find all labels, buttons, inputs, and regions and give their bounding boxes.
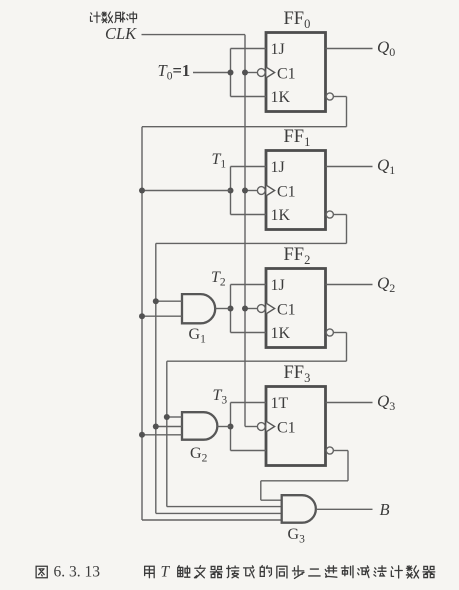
complement output bubble of FF3 [326,447,333,454]
wire Q1' to G3 input [156,512,282,514]
wire K input of FF2 [231,332,267,334]
dynamic input wedge at C1 of FF2 [266,303,274,313]
svg-text:CLK: CLK [105,24,137,43]
svg-text:6. 3. 13: 6. 3. 13 [54,564,101,581]
wire J input of FF1 [231,166,267,168]
caption 图 6.3.13 [36,566,47,578]
wire Q0' feedback: bubble to elbow [333,96,346,98]
svg-text:1J: 1J [271,277,285,294]
svg-text:1T: 1T [271,395,289,412]
wire Q3' feedback vertical right [347,451,349,481]
svg-text:1K: 1K [271,207,291,224]
inverter bubble at C1 of FF0 [257,69,265,77]
wire G1 input 1 from Q1' column [156,300,182,302]
junction dot CLK tap at FF2 [242,306,248,312]
dynamic input wedge at C1 of FF1 [266,185,274,195]
wire G2 output to FF3 bracket [217,426,230,428]
wire Q3' feedback vertical drop [260,481,262,500]
wire Q3' to G3 top input [261,499,282,501]
wire Q1' feedback column [155,243,157,513]
wire G1 output to FF2 bracket [215,308,230,310]
wire T1 line from Q0' column to FF1 bracket [142,190,231,192]
wire K input of FF0 [231,96,267,98]
complement output bubble of FF2 [326,329,333,336]
inverter bubble at C1 of FF3 [257,423,265,431]
wire J-K bracket vertical of FF0 [230,49,232,97]
wire J input of FF2 [231,284,267,286]
svg-text:T0=1: T0=1 [158,61,191,83]
wire Q2' feedback: bubble to elbow [333,332,346,334]
svg-text:T: T [161,564,171,581]
junction dot Q1' column at G1 input [153,298,159,304]
flip-flop FF1 box [266,151,326,230]
svg-text:1K: 1K [271,89,291,106]
and-gate G3 [282,495,316,523]
junction dot Q2' column at G2 input [164,414,170,420]
wire Q2' to G3 input [167,506,282,508]
flip-flop FF2 box [266,269,326,348]
wire CLK stub to C1 of FF3 [245,426,257,428]
wire Q0' feedback vertical right [346,97,348,127]
wire Q1 output [326,166,373,168]
junction dot T-line at FF3 bracket [228,424,234,430]
wire J-K bracket vertical of FF3 [230,403,232,451]
wire J input of FF3 [231,402,267,404]
wire CLK stub to C1 of FF1 [245,190,257,192]
junction dot T-line at FF1 bracket [228,188,234,194]
wire T0 input to FF0 JK bracket [193,72,231,74]
wire CLK stub to C1 of FF2 [245,308,257,310]
junction dot T-line at FF2 bracket [228,306,234,312]
wire G2 input 2 from Q1' column [156,426,182,428]
junction dot Q0' column at G2 input [139,432,145,438]
and-gate G2 [182,412,217,440]
wire Q1' feedback horizontal crossover [156,242,347,244]
svg-text:1J: 1J [271,159,285,176]
wire K input of FF3 [231,450,267,452]
junction dot Q0' column at T1 line [139,188,145,194]
wire J-K bracket vertical of FF2 [230,285,232,333]
svg-text:1K: 1K [271,325,291,342]
wire Q3' feedback: bubble to elbow [333,450,348,452]
junction dot Q0' column at G1 input [139,313,145,319]
wire K input of FF1 [231,214,267,216]
junction dot T-line at FF0 bracket [228,70,234,76]
wire CLK vertical trunk [244,35,246,427]
flip-flop FF0 box [266,33,326,112]
wire Q3' feedback horizontal crossover [261,480,348,482]
wire Q1' feedback vertical right [346,215,348,244]
junction dot Q1' column at G2 input [153,424,159,430]
svg-text:C1: C1 [277,420,296,437]
dynamic input wedge at C1 of FF3 [266,421,274,431]
wire Q0' feedback horizontal crossover [142,126,347,128]
wire G3 output B [316,508,373,510]
wire CLK horizontal [142,34,246,36]
svg-text:C1: C1 [277,66,296,83]
complement output bubble of FF1 [326,211,333,218]
flip-flop FF3 box [266,387,326,466]
wire Q0' feedback column [141,127,143,520]
svg-text:1J: 1J [271,41,285,58]
dynamic input wedge at C1 of FF0 [266,67,274,77]
wire G2 input 1 from Q2' column [167,416,182,418]
complement output bubble of FF0 [326,93,333,100]
wire J-K bracket vertical of FF1 [230,167,232,215]
wire G1 input 2 from Q0' column [142,315,182,317]
wire Q0 output [326,48,373,50]
svg-text:C1: C1 [277,302,296,319]
wire Q2' feedback vertical right [346,333,348,362]
wire G2 input 3 from Q0' column [142,434,182,436]
and-gate G1 [182,294,215,323]
wire Q1' feedback: bubble to elbow [333,214,346,216]
wire Q2' feedback horizontal crossover [167,360,347,362]
junction dot CLK tap at FF0 [242,70,248,76]
wire J input of FF0 [231,48,267,50]
wire Q2' feedback column [166,361,168,506]
svg-text:B: B [380,500,390,519]
junction dot CLK tap at FF1 [242,188,248,194]
wire Q3 output [326,402,373,404]
inverter bubble at C1 of FF1 [257,187,265,195]
svg-text:C1: C1 [277,184,296,201]
wire Q2 output [326,284,373,286]
wire Q0' to G3 input [142,519,282,521]
caption 用T触发器接成的同步二进制减法计数器 [145,566,155,578]
label 计数脉冲 (counting pulse) [90,12,136,23]
wire CLK stub to C1 of FF0 [245,72,257,74]
inverter bubble at C1 of FF2 [257,305,265,313]
